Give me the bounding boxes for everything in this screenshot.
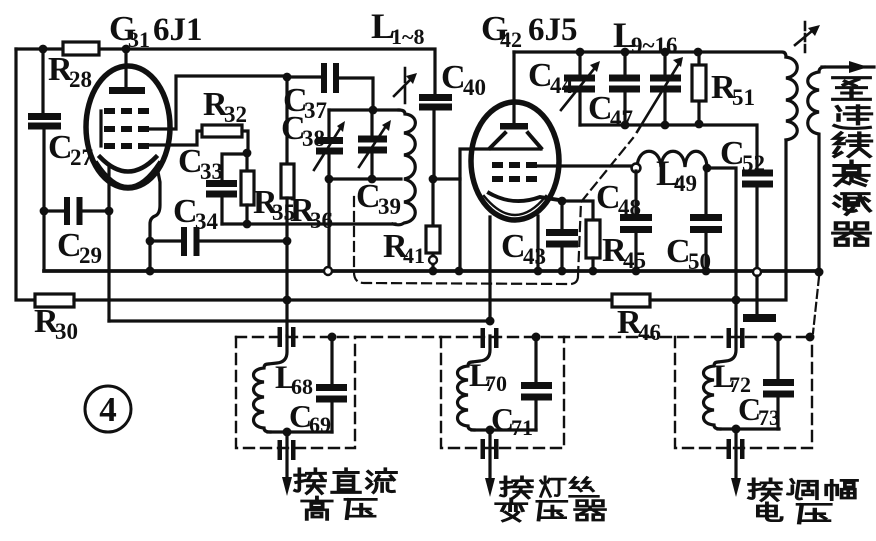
node junction R32/R35/C33 [243, 149, 252, 158]
wire C34 right stub [200, 239, 287, 242]
wire secondary top lead with arrow to attenuator [822, 65, 874, 68]
node junction secondary at bus end [815, 268, 824, 277]
node junction C73 at shield [774, 333, 783, 342]
gang dashed line up to C45 arrow [578, 138, 633, 276]
wire G31 heater lead down to filament line [107, 166, 110, 321]
svg-text:27: 27 [70, 145, 93, 170]
capacitor C69 [316, 384, 347, 403]
wire box1 exit down [285, 432, 288, 482]
node junction box2 exit [486, 426, 495, 435]
wire G31 control grid exit to R32 [150, 131, 202, 145]
wire L49 right lead to C50 [704, 168, 707, 271]
capacitor C34 [181, 227, 200, 256]
tube G42 envelope [471, 102, 559, 220]
arrow box1 to DC HV [282, 477, 292, 496]
feedthrough capacitor box3 bottom [727, 439, 745, 459]
capacitor C71 [521, 382, 552, 401]
svg-text:C: C [178, 143, 203, 180]
wire oscillator grid line y179 [329, 177, 401, 180]
svg-text:50: 50 [688, 249, 711, 274]
gang dashed line C38/C39 down [353, 197, 355, 272]
variable capacitor C45 plates [650, 75, 681, 93]
node junction box1 feed on HV line [283, 296, 292, 305]
capacitor C27 [28, 113, 61, 130]
svg-text:1~8: 1~8 [391, 24, 424, 49]
resistor R36 [281, 164, 294, 198]
svg-text:C: C [588, 90, 613, 127]
inductor L72 [704, 362, 721, 429]
resistor R30 [35, 294, 74, 307]
wire C34 left stub from cathode line [150, 239, 181, 242]
wire C29 right stub [82, 209, 109, 212]
wire box2 bottom link [472, 428, 536, 431]
G31 grid bracket left [99, 111, 102, 146]
resistor R51 lead [697, 52, 700, 124]
wire cathode to R45 [562, 201, 593, 220]
wire box3 bottom link [718, 427, 779, 430]
wire L49 right to box3 riser [707, 168, 736, 336]
variable capacitor C44 line [578, 52, 581, 125]
node junction box3 feed on HV line [732, 296, 741, 305]
svg-text:48: 48 [618, 195, 641, 220]
svg-text:40: 40 [463, 75, 486, 100]
svg-text:9~16: 9~16 [631, 33, 677, 58]
resistor R46 [612, 294, 650, 307]
node junction C69 at shield [328, 333, 337, 342]
tube G31 envelope [86, 66, 170, 188]
wire left border down to bottom-left corner [16, 49, 35, 300]
wire C37 right to oscillator tank top [339, 78, 373, 110]
capacitor C52 [742, 170, 773, 188]
node junction R51 top [694, 48, 703, 57]
wire C27 bottom down to C29 node [42, 128, 45, 211]
node open terminal tank/L49 left [632, 164, 641, 173]
capacitor C69 lead [330, 337, 333, 432]
node junction C39 bottom on grid line [368, 175, 377, 184]
inductor L70 [458, 362, 475, 430]
resistor R51 [692, 65, 706, 101]
capacitor C50 [690, 214, 722, 233]
feedthrough capacitor box1 bottom [278, 440, 296, 460]
svg-text:34: 34 [195, 209, 219, 234]
svg-text:29: 29 [79, 243, 102, 268]
wire G31 plate stem [124, 49, 127, 88]
wire box1 entry elbow to L68 [268, 336, 287, 364]
wire R36 bottom lead down through buses into box1 [285, 198, 288, 336]
arrow box3 to AM voltage [731, 478, 741, 497]
node junction box1 exit [283, 428, 292, 437]
G31 anode plate bar [109, 87, 145, 94]
node junction at R28 left [39, 45, 48, 54]
svg-text:6J1: 6J1 [153, 12, 203, 48]
G42 anode plate bar [500, 123, 528, 130]
variable capacitor C39 plates [358, 136, 387, 154]
capacitor C40 [419, 94, 452, 111]
svg-text:C: C [441, 59, 466, 96]
capacitor C29 [64, 197, 83, 225]
svg-text:C: C [666, 233, 691, 270]
wire G42 plate bus to transformer [514, 52, 786, 57]
transformer secondary [808, 67, 824, 270]
node junction filament line end [486, 317, 495, 326]
G42 cathode arc [489, 193, 559, 201]
node junction G42 cathode [558, 197, 567, 206]
node junction R35/C33 bottom [243, 220, 252, 229]
capacitor C43 [546, 229, 578, 248]
svg-text:44: 44 [550, 73, 574, 98]
svg-text:41: 41 [403, 243, 425, 268]
svg-text:C: C [356, 178, 381, 215]
node junction C37 left [283, 73, 292, 82]
resistor R45 [586, 220, 600, 258]
label vertical text to continuous attenuator [833, 78, 871, 246]
resistor R28 [63, 42, 99, 55]
wire R46 to transformer primary riser [650, 140, 786, 300]
svg-text:49: 49 [674, 171, 697, 196]
feedthrough capacitor box2 top [481, 328, 499, 348]
node junction C38 bottom on grid line [325, 175, 334, 184]
svg-text:30: 30 [55, 319, 78, 344]
capacitor C43 lead [560, 201, 563, 271]
variable capacitor C45 line [663, 52, 666, 125]
capacitor C47 plates [609, 75, 640, 93]
feedthrough capacitor box3 top [727, 328, 745, 348]
svg-text:39: 39 [378, 194, 401, 219]
node junction C45 top [661, 48, 670, 57]
svg-text:32: 32 [224, 102, 247, 127]
gang arrow on oscillator coil [404, 68, 407, 103]
node junction C48 at bus [632, 267, 641, 276]
node junction C29 right on heater lead [105, 207, 114, 216]
wire G42 heater lead to filament line [488, 217, 491, 321]
shield box dashed top rail [236, 336, 810, 338]
inductor L68 [254, 364, 271, 432]
node junction C43 at bus [558, 267, 567, 276]
variable capacitor C38 plates [316, 137, 343, 155]
node junction R41 at bus [429, 267, 438, 276]
inductor L49 [637, 151, 707, 167]
shield box1 dashed sides and bottom [236, 337, 355, 448]
variable capacitor C39 line [370, 110, 373, 179]
wire box3 entry elbow to L72 [718, 336, 736, 362]
node junction C45 bottom [661, 121, 670, 130]
svg-text:51: 51 [732, 85, 755, 110]
wire G31 cathode lead hook down to ground bus [150, 167, 160, 271]
G31 cathode arc [100, 157, 156, 172]
G42 grid row 2 [492, 176, 537, 182]
node junction C29 left [40, 207, 49, 216]
resistor R32 [202, 125, 242, 137]
gang dashed link secondary to box3 [813, 277, 819, 333]
shield box2 dashed sides and bottom [441, 337, 564, 448]
node junction L49 right [703, 164, 712, 173]
resistor R36 top lead from C37 node [285, 77, 288, 164]
svg-text:28: 28 [69, 67, 92, 92]
svg-text:C: C [720, 135, 745, 172]
shield box3 dashed sides and bottom [675, 337, 812, 448]
wire C37 left stub [287, 75, 321, 78]
node open terminal C38 ground [324, 267, 332, 275]
variable capacitor C38 line [327, 110, 330, 179]
wire R32 right lead down [242, 131, 248, 150]
node open terminal below R41 [429, 256, 437, 264]
wire C33 bottom lead to y224 wire [220, 196, 223, 224]
svg-text:6J5: 6J5 [528, 12, 578, 48]
svg-text:C: C [528, 57, 553, 94]
G31 grid row 3 [104, 143, 149, 149]
svg-text:37: 37 [304, 98, 327, 123]
svg-text:4: 4 [99, 390, 117, 429]
svg-text:C: C [173, 193, 198, 230]
svg-text:33: 33 [200, 159, 223, 184]
wire HV line R30 to R46 [74, 298, 612, 301]
wire C29 left stub [44, 209, 64, 212]
transformer primary L9-16 [786, 57, 797, 140]
capacitor C48 [620, 214, 652, 233]
arrow box2 to filament transformer [485, 478, 495, 497]
wire grid-leak line y224 to oscillator coil bottom [222, 222, 395, 225]
wire filament line to G42 [109, 319, 490, 322]
capacitor C33 [206, 180, 237, 198]
svg-text:52: 52 [742, 151, 765, 176]
G31 grid row 1 [104, 108, 149, 114]
figure number circle 4 [85, 386, 131, 432]
wire box3 exit down [734, 429, 737, 483]
node junction C40 bottom / R41 top [429, 175, 438, 184]
wire G42 grid1 exit to tank node [536, 164, 631, 167]
label to DC high voltage [295, 469, 396, 520]
node junction R51 bottom [695, 120, 704, 129]
svg-text:46: 46 [638, 320, 661, 345]
wire box2 entry elbow to L70 [472, 336, 490, 362]
node junction grid riser at bus [455, 267, 464, 276]
capacitor C71 lead [534, 337, 537, 430]
svg-text:47: 47 [610, 106, 633, 131]
gang dashed line horizontal [354, 272, 578, 284]
svg-text:43: 43 [523, 244, 546, 269]
svg-text:C: C [596, 179, 621, 216]
svg-text:38: 38 [302, 126, 325, 151]
svg-text:69: 69 [309, 412, 331, 437]
svg-text:70: 70 [485, 371, 507, 396]
variable capacitor C45 arrow [637, 65, 678, 132]
wire R35 bottom lead [245, 205, 248, 224]
wire C27/C29 branch down to ground bus corner [42, 211, 45, 270]
node junction C44 top [576, 48, 585, 57]
wire C52 bottom to ground bus [755, 187, 758, 268]
wire top bus from left border to C40 [16, 49, 435, 95]
chassis ground bar [743, 314, 776, 322]
node junction box3 exit [732, 425, 741, 434]
wire tank top bus [329, 108, 399, 111]
G31 bottom inner arc [97, 162, 159, 186]
svg-text:45: 45 [623, 248, 646, 273]
wire grid node to G42 grid riser [433, 177, 460, 180]
G42 grid row 1 [492, 162, 537, 168]
inductor L1-8 oscillator coil [393, 110, 415, 225]
wire C38 bottom down to ground bus [327, 179, 330, 267]
node junction heater2 at bus [534, 267, 543, 276]
node junction C50 at bus [702, 267, 711, 276]
svg-text:73: 73 [758, 405, 780, 430]
node junction C44 bottom [621, 121, 630, 130]
node open terminal C52 at bus [753, 268, 761, 276]
svg-text:31: 31 [128, 27, 150, 52]
G42 bottom inner arc [484, 196, 546, 215]
wire box2 exit down [488, 430, 491, 483]
svg-text:42: 42 [500, 27, 522, 52]
wire from R28 node down to C27 [41, 49, 44, 114]
node junction R36/C34 [283, 237, 292, 246]
svg-text:C: C [48, 129, 73, 166]
node cathode at ground bus [146, 267, 155, 276]
svg-text:71: 71 [511, 415, 533, 440]
resistor R41 lead [431, 179, 434, 268]
svg-text:C: C [501, 228, 526, 265]
resistor R41 [426, 226, 440, 253]
capacitor C73 [763, 379, 794, 398]
wire G42 plate stem [512, 52, 515, 124]
wire C40 bottom down to grid node [432, 110, 435, 179]
wire ground bus [44, 269, 820, 273]
node junction C47 top [621, 48, 630, 57]
resistor R35 [245, 153, 248, 171]
capacitor C47 line [623, 52, 626, 125]
feedthrough capacitor box2 bottom [481, 439, 499, 459]
node junction at R28 right / G31 plate [122, 45, 131, 54]
wire box1 bottom link [268, 430, 332, 433]
svg-text:68: 68 [291, 374, 313, 399]
wire G31 screen exit to C37 node [150, 76, 287, 129]
feedthrough capacitor box1 top [278, 327, 296, 347]
label to AM voltage [749, 479, 857, 523]
variable capacitor C39 arrow [359, 126, 386, 167]
capacitor C73 lead [776, 337, 779, 429]
capacitor C37 [321, 63, 339, 93]
label to filament transformer [496, 477, 605, 521]
variable capacitor C38 arrow [314, 127, 341, 170]
wire C44 bank bottom bus [580, 125, 757, 170]
wire C52 node to chassis bar [755, 276, 758, 315]
variable capacitor C44 plates [564, 75, 595, 93]
svg-text:C: C [57, 227, 82, 264]
wire G42 grid riser [460, 149, 541, 271]
svg-text:36: 36 [310, 208, 333, 233]
gang arrow on L9-16 [804, 22, 807, 52]
wire L49 left lead to C48 [634, 171, 637, 271]
node junction C34 left [146, 237, 155, 246]
node junction tank top [369, 106, 378, 115]
wire C33 top lead [222, 154, 247, 181]
wire R45 bottom to bus [591, 258, 594, 271]
node junction C71 at shield [532, 333, 541, 342]
variable capacitor C44 arrow [561, 69, 594, 110]
wire G42 heater lead 2 to ground bus [536, 216, 539, 271]
G31 grid row 2 [104, 126, 149, 132]
node junction R45 at bus [589, 267, 598, 276]
G42 beam plates wings [490, 133, 541, 148]
node junction shield top right corner [806, 333, 815, 342]
